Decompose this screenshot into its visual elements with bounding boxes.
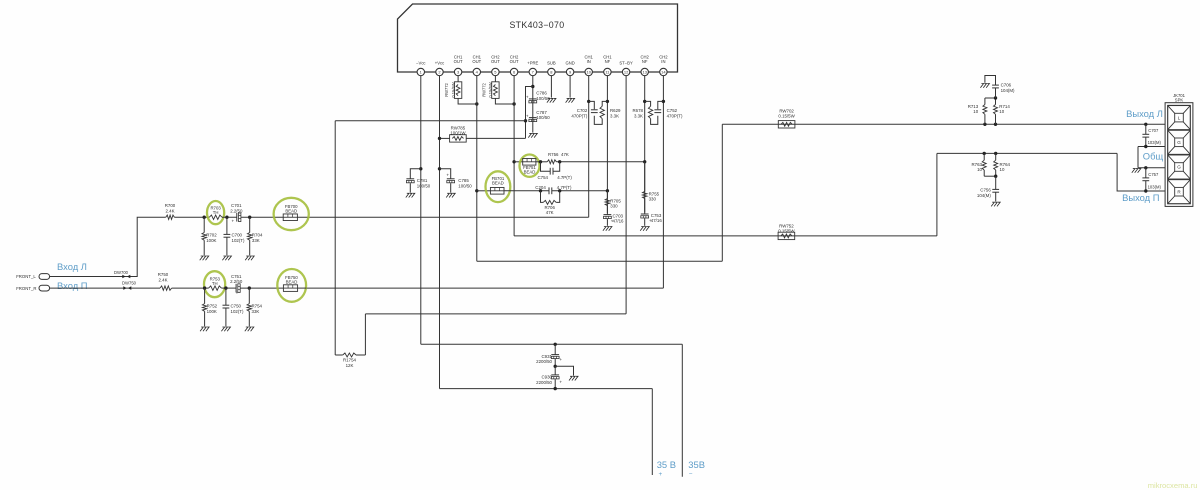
svg-text:+: + — [526, 95, 529, 100]
junction node R752 tap — [203, 286, 206, 289]
pin 4 CH1/OUT of U1 — [472, 54, 481, 75]
svg-text:100/50: 100/50 — [417, 183, 431, 188]
junction R714 top — [994, 96, 997, 99]
svg-text:TH: TH — [212, 281, 218, 286]
label R713 — [968, 104, 979, 114]
wire ST-BY horizontal to R1754 — [365, 313, 626, 315]
svg-text:C757: C757 — [1148, 172, 1159, 177]
svg-text:14: 14 — [661, 70, 666, 75]
wire midpoint to ground — [555, 366, 573, 375]
node 35V minus label — [688, 459, 705, 478]
thermistor R703 TH — [209, 205, 222, 219]
wire pin5 stub to RW772b — [494, 76, 496, 82]
pin 11 CH1/NF of U1 — [603, 54, 612, 75]
svg-text:BEAD: BEAD — [285, 209, 297, 214]
wire R763/R764 bottom join — [984, 175, 996, 177]
svg-text:0.15/5W: 0.15/5W — [778, 114, 795, 119]
label R678 — [633, 108, 644, 118]
svg-text:C204: C204 — [535, 185, 546, 190]
pin 2 +Vcc of U1 — [435, 60, 444, 75]
svg-text:2200/50: 2200/50 — [536, 359, 552, 364]
svg-text:47K: 47K — [546, 210, 554, 215]
wire connector common ground stub — [1137, 147, 1139, 168]
wire CH2 IN horizontal from FB750 — [307, 287, 664, 289]
svg-text:BEAD: BEAD — [286, 280, 298, 285]
wire connector G3 row — [1138, 167, 1165, 169]
svg-text:SUB: SUB — [547, 60, 556, 65]
svg-text:NF: NF — [605, 59, 611, 64]
ferrite bead FB750 highlight circle — [277, 269, 306, 302]
ferrite bead FB700 highlight circle — [274, 198, 309, 230]
op-amp U1 hybrid IC STK403-070 body — [398, 4, 678, 72]
node Выход Л label — [1126, 108, 1163, 119]
label C700 — [232, 233, 245, 243]
label R750 — [158, 272, 169, 282]
svg-text:GND: GND — [565, 60, 574, 65]
wire C204 to pin11 — [552, 190, 608, 192]
svg-text:Вход П: Вход П — [57, 280, 88, 291]
label C701 — [230, 203, 243, 213]
svg-text:10: 10 — [586, 70, 591, 75]
wire CH1 IN horizontal from FB700 — [306, 216, 589, 218]
capacitor C706 104(M) — [985, 76, 999, 99]
ferrite bead FB701 highlight circle — [486, 171, 511, 202]
junction R713 on rail — [983, 123, 986, 126]
resistor R756 47K — [547, 160, 556, 164]
capacitor C753 47/16 — [641, 214, 652, 226]
svg-text:100/50: 100/50 — [536, 115, 550, 120]
label C751 — [230, 274, 243, 284]
svg-text:100/50: 100/50 — [458, 183, 472, 188]
pin 6 CH2/OUT of U1 — [510, 54, 519, 75]
svg-text:IN: IN — [587, 59, 591, 64]
wire -Vcc rail horizontal to 35V minus stub — [421, 343, 683, 345]
wire R753 to C751 — [221, 287, 236, 289]
wire output L riser up — [721, 124, 723, 261]
ground under C703 — [603, 227, 612, 231]
node Выход П label — [1122, 192, 1159, 203]
svg-text:35В: 35В — [688, 459, 705, 470]
svg-text:C754: C754 — [538, 175, 549, 180]
junction pin11 top node — [606, 100, 609, 103]
svg-text:2200/50: 2200/50 — [536, 380, 552, 385]
svg-text:Выход Л: Выход Л — [1126, 108, 1163, 119]
svg-text:104(M): 104(M) — [977, 193, 991, 198]
wire 35V plus vertical stub — [651, 389, 653, 475]
svg-text:BEAD: BEAD — [492, 181, 504, 186]
junction R756 right — [558, 160, 561, 163]
ground under R754 — [245, 327, 254, 331]
junction NF node pin13 — [643, 160, 646, 163]
junction pin14 top node — [662, 100, 665, 103]
svg-text:G: G — [1177, 140, 1181, 145]
junction +PRE bus / ST-BY bus — [524, 119, 527, 122]
wire output L rail to speaker connector — [722, 123, 1165, 125]
wire C701 to FB700 — [241, 216, 283, 218]
wire pin4 CH1 OUT vertical down — [476, 76, 478, 261]
svg-text:C707: C707 — [1148, 128, 1159, 133]
label JK701 SPK — [1173, 93, 1186, 103]
svg-text:OUT: OUT — [454, 59, 463, 64]
resistor R713 10 — [983, 98, 987, 124]
label C781 — [417, 178, 431, 188]
svg-text:ST−BY: ST−BY — [619, 60, 633, 65]
wire pin6 to FB751 — [514, 161, 523, 163]
svg-text:+: + — [526, 113, 529, 118]
ground under C787 — [528, 133, 537, 137]
wire FRONT_L to R700 riser — [50, 217, 166, 276]
label DW750 — [122, 281, 137, 286]
svg-text:2.2/50: 2.2/50 — [230, 208, 243, 213]
junction C781 tap on -Vcc — [419, 167, 422, 170]
wire R1754 riser — [364, 314, 366, 355]
resistor RW702 0.15/5W — [778, 121, 795, 128]
connector FRONT_L — [39, 274, 50, 280]
pin 3 CH1/OUT of U1 — [454, 54, 463, 75]
capacitor C700 102(T) — [224, 217, 231, 255]
wire connector G2 row — [1138, 146, 1165, 148]
ground at pin8 — [547, 98, 556, 102]
junction C204 left — [539, 189, 542, 192]
resistor R714 10 — [994, 98, 998, 124]
svg-text:Общ: Общ — [1143, 151, 1164, 162]
resistor R763 10 — [982, 153, 986, 176]
svg-text:2.4K: 2.4K — [158, 277, 167, 282]
label C753 — [651, 213, 663, 223]
label DW700 — [114, 270, 129, 275]
svg-text:47K: 47K — [561, 152, 569, 157]
pin 8 SUB of U1 — [547, 60, 556, 75]
junction R764 bottom — [994, 175, 997, 178]
svg-text:103(M): 103(M) — [1148, 140, 1162, 145]
junction FB701 tap on pin4 — [475, 189, 478, 192]
wire pin14 CH2 IN vertical — [662, 76, 664, 288]
junction C204 right — [558, 189, 561, 192]
resistor R702 100K — [202, 217, 206, 255]
pin 9 GND of U1 — [565, 60, 574, 75]
svg-text:R756: R756 — [548, 152, 559, 157]
resistor R700 2.4K — [166, 215, 175, 219]
wire R756 to pin13 — [556, 161, 644, 163]
wire R713/R714 top join — [985, 97, 996, 99]
svg-text:0.15/5W: 0.15/5W — [778, 228, 795, 233]
svg-text:L: L — [1178, 115, 1181, 120]
svg-text:100K: 100K — [207, 309, 217, 314]
capacitor C756 104(M) — [992, 176, 999, 201]
pin 5 CH2/OUT of U1 — [491, 54, 500, 75]
label R629 — [610, 108, 621, 118]
svg-text:10: 10 — [999, 109, 1004, 114]
svg-text:470P(T): 470P(T) — [667, 113, 683, 118]
label RW772 a — [444, 82, 456, 97]
ferrite bead FB750 BEAD — [283, 275, 298, 291]
wire 35V minus vertical stub — [681, 344, 683, 476]
junction node R702 tap — [203, 216, 206, 219]
label RW702 — [778, 108, 795, 118]
resistor R1754 12K — [335, 353, 365, 357]
junction R756 left — [539, 160, 542, 163]
junction C930 bottom on +Vcc rail — [554, 387, 557, 390]
svg-text:NF: NF — [642, 59, 648, 64]
junction pin10 top node — [587, 100, 590, 103]
svg-text:G: G — [1177, 165, 1181, 170]
resistor R678 3.3K — [648, 106, 652, 118]
junction R763 on rail — [983, 152, 986, 155]
wire pin10 CH1 IN vertical — [588, 76, 590, 217]
junction node R754 tap — [248, 286, 251, 289]
label R752 — [207, 304, 218, 314]
svg-text:FRONT_L: FRONT_L — [16, 274, 36, 279]
svg-text:3.3K: 3.3K — [610, 113, 619, 118]
junction node R704 tap — [248, 216, 251, 219]
svg-text:OUT: OUT — [510, 59, 519, 64]
ground under R704 — [245, 256, 254, 260]
svg-text:+: + — [232, 219, 235, 224]
wire C751 to FB750 — [240, 287, 283, 289]
svg-text:12K: 12K — [346, 363, 354, 368]
wire FB750 out — [298, 287, 307, 289]
svg-text:SPK: SPK — [1175, 97, 1184, 102]
junction node C750 tap — [224, 286, 227, 289]
svg-text:47/16: 47/16 — [651, 218, 663, 223]
svg-text:2.4K: 2.4K — [165, 208, 174, 213]
capacitor C703 47/16 — [604, 215, 614, 226]
label C756 — [977, 188, 991, 198]
node Вход Л label — [57, 261, 87, 272]
wire output R riser up — [936, 153, 938, 236]
svg-text:Выход П: Выход П — [1122, 192, 1159, 203]
ground at connector common — [1132, 169, 1141, 173]
label R704 — [252, 233, 263, 243]
ferrite bead FB701 BEAD — [490, 176, 504, 194]
resistor R629 3.3K — [600, 106, 604, 118]
svg-text:10: 10 — [977, 167, 982, 172]
svg-text:Вход Л: Вход Л — [57, 261, 87, 272]
svg-text:33K: 33K — [252, 309, 260, 314]
ground under R752 — [200, 327, 209, 331]
svg-text:3.3K: 3.3K — [634, 113, 643, 118]
svg-text:IN: IN — [661, 59, 665, 64]
label C752 — [667, 108, 683, 118]
junction C785 tap on +Vcc — [438, 167, 441, 170]
wire pin12 ST-BY vertical — [625, 76, 627, 314]
svg-text:0.15/5W: 0.15/5W — [488, 82, 493, 97]
label R706 — [544, 205, 555, 215]
svg-text:FRONT_R: FRONT_R — [16, 286, 36, 291]
svg-text:+: + — [446, 173, 449, 178]
IC name label STK403-070 — [509, 20, 564, 30]
capacitor C786 100/50 — [526, 95, 537, 103]
svg-text:+: + — [659, 471, 663, 478]
resistor RW785 100/1W — [450, 135, 467, 142]
ground under C753 — [640, 227, 649, 231]
junction pin7 branch — [531, 85, 534, 88]
wire FRONT_R to R750 — [50, 287, 160, 289]
svg-text:STK403−070: STK403−070 — [509, 20, 564, 30]
label R755 — [649, 192, 660, 202]
label C757 — [1148, 172, 1162, 190]
label C750 — [231, 304, 244, 314]
resistor R706 47K parallel branch — [541, 191, 560, 205]
svg-text:2.2/50: 2.2/50 — [230, 279, 243, 284]
junction C707 top — [1144, 123, 1147, 126]
junction node C700 tap — [225, 216, 228, 219]
wire +PRE branch to RW785 bus — [526, 87, 533, 139]
junction NF node pin11 — [606, 189, 609, 192]
wire R700 to R703 — [174, 216, 209, 218]
wire output R rail — [937, 152, 1117, 154]
wire ST-BY bus left riser down — [334, 121, 336, 355]
label RW752 — [778, 223, 795, 233]
pin 1 −Vcc of U1 — [416, 60, 425, 75]
capacitor C702 470P(T) — [591, 110, 598, 113]
label C703 — [613, 213, 625, 223]
label C786 — [536, 91, 550, 101]
resistor R705 330 — [605, 191, 609, 215]
wire pin2 +Vcc vertical down to +35V rail — [439, 76, 441, 389]
ground at C706 — [980, 84, 989, 88]
junction pin6/RW772b — [512, 102, 515, 105]
wire pin6 CH2 OUT vertical down — [513, 76, 515, 236]
svg-text:0.15/5W: 0.15/5W — [451, 82, 456, 97]
resistor R752 100K — [202, 288, 206, 326]
svg-text:12: 12 — [624, 70, 629, 75]
capacitor C204 4.7P(T) — [549, 187, 552, 194]
label C706 — [1001, 83, 1015, 93]
svg-text:47/16: 47/16 — [613, 219, 625, 224]
wire CH2 OUT horizontal run to RW752 — [514, 235, 937, 237]
svg-text:100K: 100K — [206, 238, 216, 243]
label C707 — [1148, 128, 1162, 145]
label FRONT_L — [16, 274, 36, 279]
link DW750 arrows — [123, 286, 131, 290]
capacitor C930 2200/50 — [551, 366, 562, 388]
wire FB701 to C204 — [504, 190, 549, 192]
ground under C750 — [221, 327, 230, 331]
resistor R755 330 — [643, 162, 647, 214]
svg-text:+: + — [559, 357, 562, 362]
capacitor C701 2.2/50 — [232, 213, 241, 224]
wire ST-BY bus horizontal — [335, 120, 525, 122]
svg-text:+: + — [559, 380, 562, 385]
svg-text:RW772: RW772 — [444, 82, 449, 96]
ground under C785 — [446, 193, 455, 197]
pin 12 ST−BY of U1 — [619, 60, 633, 75]
label R754 — [252, 304, 263, 314]
svg-text:RW772: RW772 — [482, 82, 487, 96]
label C702 — [571, 108, 587, 118]
svg-text:35 В: 35 В — [657, 459, 676, 470]
thermistor R753 TH — [209, 276, 222, 290]
capacitor C787 100/50 — [526, 113, 537, 121]
capacitor C751 2.2/50 — [236, 284, 241, 296]
capacitor C785 100/50 — [440, 169, 455, 193]
svg-text:+Vcc: +Vcc — [435, 60, 444, 65]
svg-text:102(T): 102(T) — [232, 238, 245, 243]
svg-text:33K: 33K — [252, 238, 260, 243]
ground under C756 — [991, 202, 1000, 206]
capacitor C750 102(T) — [223, 288, 230, 326]
label FRONT_R — [16, 286, 36, 291]
svg-text:10: 10 — [1000, 167, 1005, 172]
junction pin13 top node — [643, 100, 646, 103]
ferrite bead FB751 BEAD — [523, 159, 537, 175]
watermark mikrocxema.ru — [1148, 481, 1198, 490]
label C787 — [536, 110, 550, 120]
junction R764 on rail — [994, 152, 997, 155]
svg-text:10: 10 — [973, 109, 978, 114]
node 35V plus label — [657, 459, 676, 478]
svg-text:R1754: R1754 — [343, 357, 356, 362]
capacitor C754 4.7P(T) parallel branch — [541, 162, 560, 175]
wire pin11 CH1 NF vertical — [606, 76, 608, 213]
junction C931 top on -Vcc rail — [554, 343, 557, 346]
wire RW772a bottom to pin4 node — [458, 98, 477, 104]
capacitor C931 2200/50 — [551, 344, 562, 366]
label R700 — [165, 203, 176, 213]
wire R703 to C701 — [222, 216, 237, 218]
svg-text:BEAD: BEAD — [524, 169, 536, 174]
svg-text:OUT: OUT — [472, 59, 481, 64]
capacitor C752 470P(T) — [654, 110, 661, 113]
junction C930/C931 midpoint — [554, 365, 557, 368]
svg-text:330: 330 — [649, 197, 657, 202]
thermistor R703 TH highlight circle — [207, 201, 224, 224]
label R714 — [999, 104, 1010, 114]
thermistor R753 TH highlight circle — [204, 271, 225, 297]
resistor RW772 0.15/5W (a) — [454, 82, 461, 99]
label C930 — [536, 375, 552, 385]
label C204 — [535, 185, 572, 190]
wire pin7 +PRE vertical with caps to ground — [532, 76, 534, 133]
svg-text:470P(T): 470P(T) — [571, 113, 587, 118]
junction C757 top — [1144, 166, 1147, 169]
resistor R704 33K — [248, 217, 252, 255]
capacitor C707 103(M) — [1142, 124, 1149, 146]
svg-text:+PRE: +PRE — [527, 60, 538, 65]
ground at pin9 — [566, 98, 575, 102]
svg-text:OUT: OUT — [491, 59, 500, 64]
ground under C700 — [222, 256, 231, 260]
wire RW772b bottom to pin6 node — [495, 98, 514, 104]
label R1754 — [343, 357, 356, 367]
wire pin13 CH2 NF vertical — [644, 76, 646, 213]
label RW772 b — [482, 82, 494, 97]
wire pin9 GND stub to ground — [569, 76, 571, 98]
wire pin8 SUB stub to ground — [550, 76, 552, 98]
svg-text:−: − — [689, 471, 693, 478]
label R756 — [548, 152, 569, 157]
label C785 — [458, 178, 472, 188]
wire pin1 -Vcc vertical down to -35V rail — [420, 76, 422, 345]
svg-text:13: 13 — [642, 70, 647, 75]
label R705 — [610, 198, 621, 208]
link DW700 arrows — [122, 275, 130, 279]
svg-text:102(T): 102(T) — [231, 309, 244, 314]
svg-text:100/1W: 100/1W — [450, 130, 466, 135]
wire RW785 row — [440, 137, 526, 139]
resistor RW772 0.15/5W (b) — [492, 82, 499, 99]
wire R750 to R753 — [172, 287, 209, 289]
svg-text:−Vcc: −Vcc — [416, 60, 425, 65]
wire FB700 out — [297, 216, 306, 218]
svg-text:TH: TH — [213, 210, 219, 215]
svg-text:DW750: DW750 — [122, 281, 137, 286]
label C754 — [538, 175, 573, 180]
label R702 — [206, 233, 217, 243]
wire +Vcc rail horizontal to 35V plus stub — [440, 388, 653, 390]
wire FB751 to R756 — [536, 161, 547, 163]
